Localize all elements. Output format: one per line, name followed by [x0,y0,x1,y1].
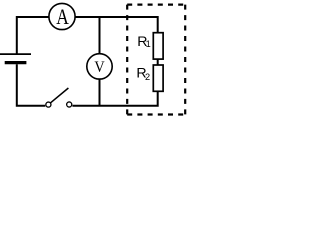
svg-text:1: 1 [146,39,151,49]
svg-text:V: V [94,57,105,76]
svg-text:A: A [56,4,69,29]
svg-text:2: 2 [145,72,150,82]
